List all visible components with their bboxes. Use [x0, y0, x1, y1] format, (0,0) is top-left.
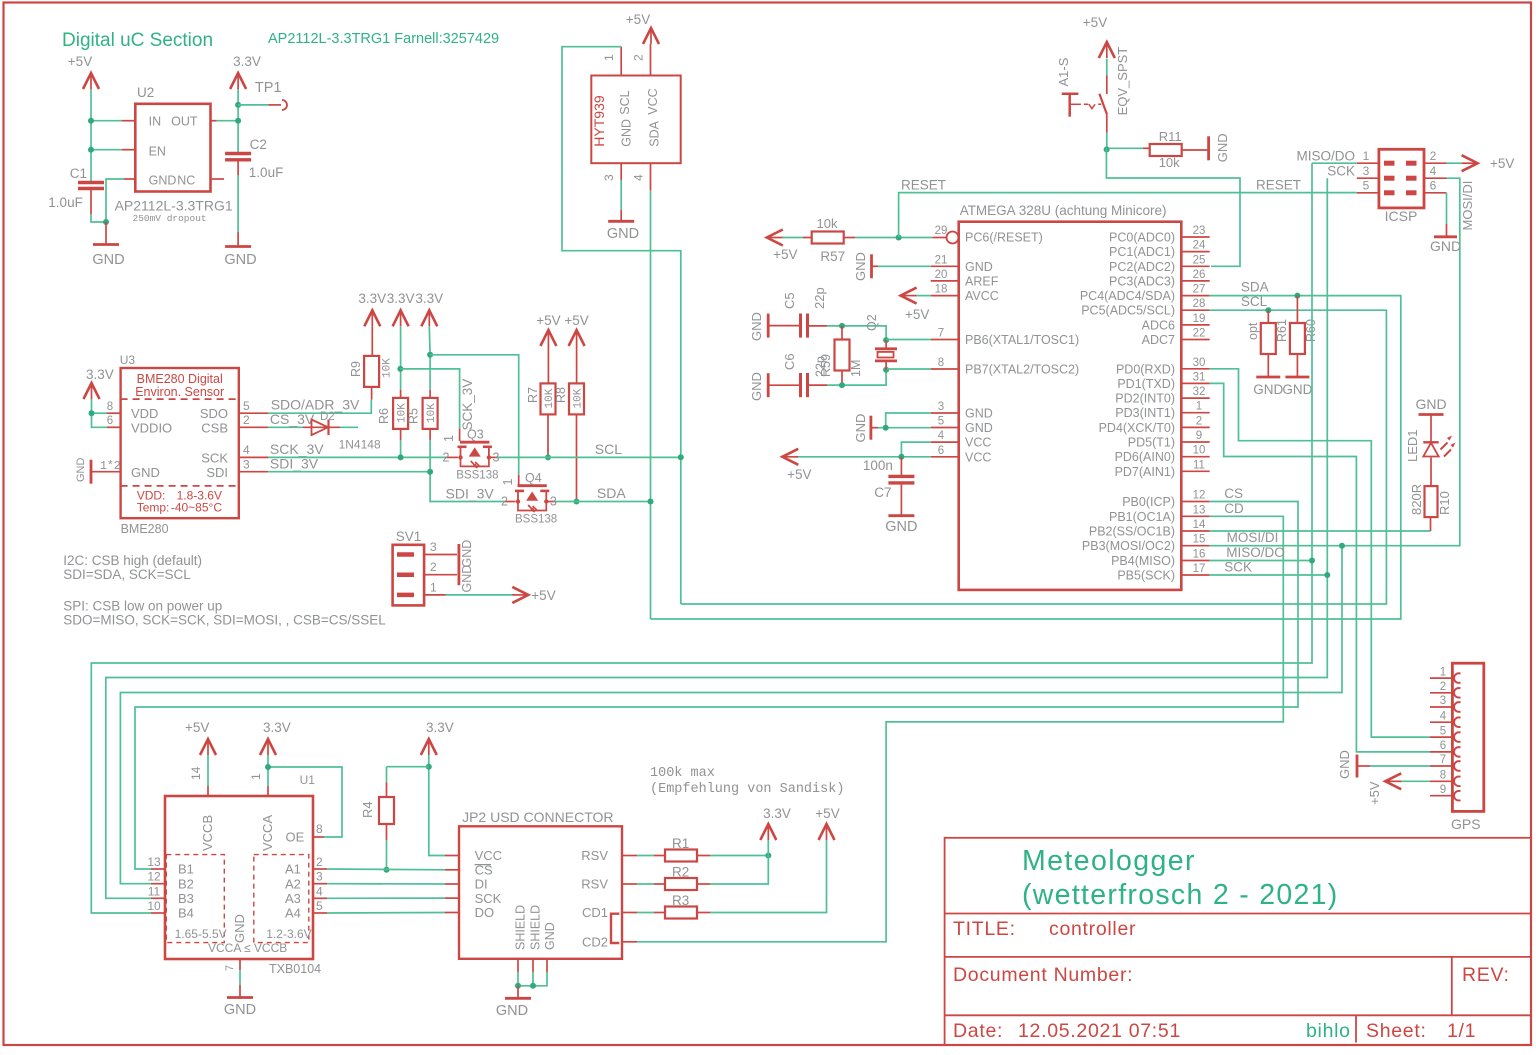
wire R11 to GND	[1181, 149, 1207, 151]
svg-text:Q2: Q2	[865, 314, 879, 331]
svg-text:A1: A1	[285, 862, 301, 877]
ground symbol C7	[888, 514, 914, 517]
pin stub U2 EN	[122, 149, 136, 151]
svg-text:11: 11	[148, 884, 161, 898]
svg-text:1M: 1M	[849, 360, 863, 377]
resistor R9	[371, 326, 373, 356]
wire ICSP pin4 MOSI	[1344, 178, 1460, 546]
svg-text:GND: GND	[460, 540, 474, 568]
resistor R1	[637, 855, 654, 857]
junction R4 CS	[384, 867, 390, 873]
resistor R2	[637, 883, 654, 885]
svg-text:10: 10	[147, 899, 161, 913]
svg-text:MOSI/DI: MOSI/DI	[1460, 181, 1475, 231]
svg-text:14: 14	[189, 766, 203, 780]
junction gate Q3 rail	[397, 366, 403, 372]
junction VCCA OE	[265, 764, 271, 770]
wire 3.3V no2 down	[400, 326, 402, 390]
svg-text:GND: GND	[885, 519, 917, 535]
junction GND pins	[883, 425, 889, 431]
svg-text:R4: R4	[360, 801, 375, 818]
svg-text:8: 8	[316, 822, 323, 836]
wire MISO net pin16 to bus	[1210, 560, 1312, 562]
capacitor C6	[768, 384, 799, 386]
svg-text:9: 9	[1196, 430, 1202, 442]
svg-text:5: 5	[243, 399, 250, 413]
svg-text:8: 8	[938, 357, 944, 369]
pin stub USD DI	[445, 883, 459, 885]
svg-text:PD4(XCK/T0): PD4(XCK/T0)	[1099, 421, 1175, 435]
svg-text:26: 26	[1193, 269, 1206, 281]
testpoint TP1	[238, 104, 268, 106]
pin stub U2 OUT	[211, 120, 217, 122]
pin 2 PD4(XCK/T0) ATMEGA right	[1181, 426, 1209, 428]
junction gate Q4 rail	[427, 352, 433, 358]
wire pin14 to R10	[1210, 530, 1431, 532]
svg-text:NC: NC	[177, 173, 195, 187]
wire U1 pin7 GND	[239, 959, 241, 970]
svg-text:VDDIO: VDDIO	[131, 420, 172, 435]
wire U2 GND pin to GND	[124, 178, 135, 180]
svg-text:2: 2	[243, 413, 250, 427]
svg-text:3: 3	[1363, 164, 1370, 178]
wire A4 to DO	[327, 912, 445, 915]
svg-text:AP2112L-3.3TRG1 Farnell:325742: AP2112L-3.3TRG1 Farnell:3257429	[268, 31, 499, 47]
pin 32 PD2(INT0) ATMEGA right	[1181, 397, 1209, 399]
svg-text:1: 1	[1196, 401, 1202, 413]
wire USD bottom pins to GND	[517, 959, 519, 972]
svg-text:B4: B4	[178, 906, 194, 921]
power 3.3V symbol near U2	[230, 73, 246, 89]
svg-text:6: 6	[1430, 179, 1437, 193]
resistor R61 opt	[1267, 310, 1269, 323]
pin stub ATMEGA pin29 with inversion circle	[932, 237, 946, 239]
svg-text:DI: DI	[475, 877, 488, 892]
svg-text:22: 22	[1193, 328, 1206, 340]
ground symbol under U2	[105, 222, 107, 244]
pin stub ICSP pin3	[1357, 177, 1379, 179]
pin 21 GND ATMEGA left	[931, 265, 959, 267]
svg-text:R11: R11	[1159, 129, 1182, 144]
wire TXD net pin31 to GPS pin6	[1210, 383, 1430, 752]
svg-text:I2C: CSB high (default): I2C: CSB high (default)	[63, 553, 202, 568]
svg-text:VCC: VCC	[646, 88, 660, 114]
svg-text:11: 11	[1193, 459, 1205, 471]
svg-text:Document Number:: Document Number:	[953, 964, 1133, 986]
svg-text:SCK: SCK	[201, 451, 228, 466]
svg-text:+5V: +5V	[185, 720, 209, 735]
svg-text:1.65-5.5V: 1.65-5.5V	[175, 927, 227, 941]
svg-text:GND: GND	[853, 252, 868, 281]
junction R1 3.3V	[765, 853, 771, 859]
svg-text:ADC6: ADC6	[1142, 318, 1175, 332]
dashed section A	[254, 855, 309, 943]
wire R1 to 3.3V	[710, 855, 768, 857]
svg-text:GND: GND	[749, 372, 764, 401]
svg-text:10K: 10K	[382, 358, 394, 378]
svg-text:R6: R6	[377, 408, 391, 424]
svg-text:2: 2	[430, 560, 437, 574]
svg-text:JP2 USD CONNECTOR: JP2 USD CONNECTOR	[462, 809, 613, 825]
power 3.3V symbol R1	[767, 840, 769, 856]
junction SCK	[1324, 572, 1330, 578]
pin 13 PB1(OC1A) ATMEGA right	[1181, 515, 1209, 517]
svg-text:IN: IN	[149, 114, 162, 128]
svg-text:25: 25	[1193, 254, 1206, 266]
pin 15 PB3(MOSI/OC2) ATMEGA right	[1181, 545, 1209, 547]
wire R3 to +5V	[710, 840, 827, 913]
pin 6 VCC ATMEGA left	[931, 456, 959, 458]
power +5V symbol ICSP pin2	[1447, 162, 1462, 164]
IC U2 AP2112L box	[135, 104, 210, 192]
junction SDA R60	[1294, 293, 1300, 299]
svg-text:GPS: GPS	[1451, 816, 1481, 832]
junction +5V EN	[88, 147, 94, 153]
transistor Q3 BSS138	[460, 441, 489, 444]
svg-text:VCCA: VCCA	[260, 815, 275, 851]
wire HYT939 SDA down	[650, 191, 652, 619]
svg-text:SCL: SCL	[1241, 294, 1268, 309]
svg-text:VDD: VDD	[131, 406, 158, 421]
svg-text:GND: GND	[853, 414, 868, 443]
svg-text:12: 12	[147, 870, 161, 884]
pin stub USD CD2	[622, 941, 637, 943]
connector GPS box	[1452, 663, 1483, 811]
power +5V symbol AVCC	[901, 288, 917, 304]
svg-text:SPI: CSB low on power up: SPI: CSB low on power up	[63, 599, 222, 614]
pin 19 ADC6 ATMEGA right	[1181, 324, 1209, 326]
svg-text:GND: GND	[1337, 750, 1352, 779]
svg-text:GND: GND	[749, 312, 764, 341]
svg-text:A1-S: A1-S	[1056, 57, 1071, 86]
svg-text:REV:: REV:	[1462, 964, 1510, 986]
svg-text:7: 7	[1440, 754, 1446, 766]
svg-text:PD3(INT1): PD3(INT1)	[1115, 406, 1175, 420]
resistor R57	[812, 232, 844, 244]
overline CS	[475, 864, 491, 866]
svg-text:2: 2	[501, 495, 508, 509]
pin stub USD RSV	[622, 883, 637, 885]
wire SCL pin28	[681, 310, 1387, 604]
svg-text:10k: 10k	[1159, 155, 1180, 170]
svg-text:GND: GND	[496, 1003, 528, 1019]
wire R4 bottom to CS	[386, 824, 388, 840]
svg-text:29: 29	[935, 225, 948, 237]
svg-text:31: 31	[1193, 371, 1206, 383]
ground symbol SV1 pin3	[457, 544, 460, 565]
svg-text:3: 3	[1440, 695, 1446, 707]
svg-text:GND: GND	[965, 421, 993, 435]
svg-text:3.3V: 3.3V	[358, 291, 386, 306]
svg-text:17: 17	[1193, 563, 1206, 575]
svg-text:Sheet:: Sheet:	[1366, 1020, 1427, 1042]
connector ICSP box	[1379, 149, 1424, 208]
svg-text:100n: 100n	[863, 458, 893, 473]
wire AVCC +5V	[917, 295, 931, 297]
svg-text:6: 6	[938, 445, 944, 457]
pin stub GPS pin4	[1430, 721, 1455, 723]
svg-text:MISO/DO: MISO/DO	[1296, 149, 1355, 164]
IC U1 TXB0104 box	[165, 796, 313, 959]
pin stub BME CSB	[239, 426, 268, 428]
wire SCK net pin17 to bus	[1210, 574, 1328, 576]
svg-text:SDI: SDI	[206, 465, 228, 480]
power +5V symbol SV1 pin1	[446, 594, 514, 596]
svg-text:PD6(AIN0): PD6(AIN0)	[1115, 450, 1175, 464]
svg-text:PC4(ADC4/SDA): PC4(ADC4/SDA)	[1080, 289, 1175, 303]
crystal Q2	[885, 340, 887, 349]
svg-text:opt: opt	[1246, 322, 1260, 340]
svg-text:CD1: CD1	[582, 905, 608, 920]
title block frame	[945, 838, 1531, 1045]
ground symbol pins 3 5	[870, 416, 873, 440]
pin stub GPS pin9	[1430, 795, 1455, 797]
svg-text:CD2: CD2	[582, 935, 608, 950]
svg-text:U2: U2	[137, 85, 154, 100]
ground symbol R60	[1285, 376, 1309, 379]
svg-text:PB4(MISO): PB4(MISO)	[1111, 554, 1175, 568]
svg-text:2: 2	[1430, 149, 1437, 163]
svg-text:PB2(SS/OC1B): PB2(SS/OC1B)	[1089, 525, 1175, 539]
svg-text:VCCA ≤ VCCB: VCCA ≤ VCCB	[208, 941, 287, 955]
pin stub USD VCC	[445, 855, 459, 857]
svg-text:3.3V: 3.3V	[86, 367, 114, 382]
svg-text:TXB0104: TXB0104	[269, 962, 321, 976]
pin stub BME SCK	[239, 456, 268, 458]
svg-text:4: 4	[243, 443, 250, 457]
svg-text:C7: C7	[874, 485, 891, 500]
wire CD net pin13 to CD1 CD2	[637, 516, 1283, 942]
svg-text:+5V: +5V	[564, 313, 588, 328]
wire C2 to GND	[237, 160, 239, 176]
svg-text:RESET: RESET	[1256, 178, 1301, 193]
wire XTAL1 to pin7	[886, 339, 931, 341]
svg-text:PB6(XTAL1/TOSC1): PB6(XTAL1/TOSC1)	[965, 333, 1079, 347]
svg-text:2: 2	[443, 451, 450, 465]
wire MOSI net pin15 to bus	[120, 546, 1342, 884]
svg-text:+5V: +5V	[531, 588, 555, 603]
svg-text:-40~85°C: -40~85°C	[171, 501, 222, 515]
LED LED1	[1430, 458, 1432, 487]
junction RESET node	[896, 235, 902, 241]
svg-text:PD0(RXD): PD0(RXD)	[1116, 362, 1175, 376]
resistor R4	[379, 797, 394, 824]
svg-text:8: 8	[1440, 770, 1446, 782]
svg-text:3.3V: 3.3V	[233, 54, 261, 69]
svg-text:CD: CD	[1224, 501, 1244, 516]
svg-text:GND: GND	[1415, 396, 1446, 412]
pin stub GPS pin7	[1430, 765, 1455, 767]
junction VDD	[89, 410, 95, 416]
power 3.3V symbol U1	[260, 739, 276, 755]
svg-text:ATMEGA 328U (achtung Minicore): ATMEGA 328U (achtung Minicore)	[960, 203, 1167, 218]
svg-text:PB3(MOSI/OC2): PB3(MOSI/OC2)	[1082, 539, 1175, 553]
svg-text:SCK: SCK	[1327, 164, 1355, 179]
svg-text:CS: CS	[1224, 486, 1243, 501]
svg-text:Temp:: Temp:	[137, 501, 170, 515]
svg-text:7: 7	[938, 328, 944, 340]
svg-text:6: 6	[107, 415, 113, 427]
pin 23 PC0(ADC0) ATMEGA right	[1181, 236, 1209, 238]
pin 3 GND ATMEGA left	[931, 412, 959, 414]
svg-text:6: 6	[1440, 740, 1446, 752]
svg-text:GND: GND	[224, 252, 256, 268]
svg-text:A3: A3	[285, 891, 301, 906]
svg-text:30: 30	[1193, 357, 1206, 369]
svg-text:22p: 22p	[814, 356, 828, 377]
svg-text:EQV_SPST: EQV_SPST	[1115, 47, 1130, 116]
pin stub GPS pin8	[1430, 780, 1455, 782]
pin 18 AVCC ATMEGA left	[931, 295, 959, 297]
wire CSB to D2	[268, 426, 303, 428]
svg-text:1.0uF: 1.0uF	[249, 165, 284, 180]
svg-text:U3: U3	[120, 353, 136, 367]
svg-text:U1: U1	[300, 773, 316, 787]
wire C7 to GND	[900, 483, 902, 515]
resistor R3	[637, 912, 654, 914]
pin stub U2 IN	[122, 120, 136, 122]
junction R59 bottom	[839, 382, 845, 388]
IC U3 BME280 box	[121, 368, 239, 518]
junction MOSI	[1339, 543, 1345, 549]
svg-text:R60: R60	[1304, 319, 1318, 342]
svg-text:SHIELD: SHIELD	[529, 905, 543, 950]
junction XTAL1	[883, 337, 889, 343]
svg-text:5: 5	[1363, 179, 1370, 193]
diode D2 1N4148	[303, 426, 340, 428]
svg-text:C1: C1	[70, 166, 87, 181]
junction SCL R61	[1265, 307, 1271, 313]
resistor R7	[547, 346, 549, 383]
svg-text:GND: GND	[1253, 382, 1283, 397]
power +5V symbol GPS pin8	[1400, 780, 1431, 782]
svg-text:13: 13	[147, 855, 161, 869]
ground symbol R11 rotated	[1207, 136, 1210, 160]
svg-text:SCL: SCL	[618, 90, 632, 114]
wire 3.3V to VDD VDDIO	[92, 399, 108, 427]
ground symbol C6	[767, 373, 770, 397]
junction 3.3V R4	[426, 764, 432, 770]
svg-text:PC5(ADC5/SCL): PC5(ADC5/SCL)	[1081, 304, 1175, 318]
svg-text:19: 19	[1193, 313, 1206, 325]
svg-text:SCK: SCK	[1224, 560, 1252, 575]
svg-text:3: 3	[602, 174, 616, 181]
svg-text:+5V: +5V	[773, 247, 797, 262]
svg-text:GND: GND	[460, 565, 474, 593]
pin stub HYT939 pin2 VCC	[650, 44, 652, 76]
capacitor C7	[900, 457, 902, 475]
svg-text:4: 4	[1440, 710, 1447, 722]
svg-text:RESET: RESET	[901, 178, 946, 193]
svg-text:VCCB: VCCB	[200, 815, 215, 851]
resistor R8	[576, 346, 578, 383]
capacitor C5	[768, 325, 799, 327]
svg-text:PC0(ADC0): PC0(ADC0)	[1109, 231, 1175, 245]
junction R7 SCL	[545, 454, 551, 460]
svg-text:13: 13	[1193, 504, 1206, 516]
svg-text:Digital uC Section: Digital uC Section	[62, 30, 213, 51]
wire pin3 pin5 GND	[878, 427, 931, 429]
wire SDA from Q4 to HYT junction	[556, 501, 651, 503]
wire U2 OUT to 3.3V rail	[217, 120, 239, 122]
power +5V symbol U1	[200, 739, 216, 755]
svg-text:PB0(ICP): PB0(ICP)	[1122, 495, 1175, 509]
pin stub GPS pin1	[1430, 677, 1455, 679]
svg-text:HYT939: HYT939	[591, 95, 607, 147]
svg-text:+5V: +5V	[1367, 781, 1382, 805]
svg-text:AP2112L-3.3TRG1: AP2112L-3.3TRG1	[115, 198, 233, 214]
svg-text:2: 2	[632, 54, 646, 61]
svg-text:1: 1	[1363, 149, 1370, 163]
junction TP1 node	[235, 102, 241, 108]
junction XTAL2	[883, 367, 889, 373]
pin 12 PB0(ICP) ATMEGA right	[1181, 501, 1209, 503]
wire +5V to R57	[783, 237, 803, 239]
pin stub USD CS	[445, 869, 459, 871]
wire SDO to R9	[268, 400, 371, 414]
svg-text:20: 20	[935, 269, 948, 281]
svg-text:3: 3	[316, 870, 323, 884]
pin 25 PC2(ADC2) ATMEGA right	[1181, 265, 1209, 267]
junction +5V IN	[88, 118, 94, 124]
wire switch to PC2 pin25	[1106, 148, 1240, 266]
wire to Q4 gate	[430, 355, 519, 475]
svg-text:820R: 820R	[1409, 484, 1424, 515]
svg-text:R1: R1	[672, 836, 689, 851]
svg-text:LED1: LED1	[1405, 429, 1420, 462]
svg-text:ICSP: ICSP	[1385, 208, 1418, 224]
svg-text:GND: GND	[75, 458, 87, 483]
power +5V symbol R3	[819, 824, 835, 840]
svg-text:(wetterfrosch 2 - 2021): (wetterfrosch 2 - 2021)	[1022, 879, 1339, 911]
pin stub BME SDI	[239, 471, 268, 473]
ground symbol SV1 pin2	[457, 564, 460, 585]
svg-text:SDA: SDA	[1241, 280, 1269, 295]
svg-text:C5: C5	[782, 292, 797, 309]
pin stub HYT939 pin3 GND	[620, 163, 622, 180]
pin 8 PB7(XTAL2/TOSC2) ATMEGA left	[931, 368, 959, 370]
svg-text:GND: GND	[149, 173, 177, 187]
pin stub ICSP pin4	[1424, 177, 1447, 179]
pin 4 VCC ATMEGA left	[931, 441, 959, 443]
svg-text:+5V: +5V	[815, 806, 839, 821]
connector SV1 box	[393, 545, 425, 606]
svg-text:SDA: SDA	[597, 485, 626, 501]
svg-text:+5V: +5V	[536, 313, 560, 328]
pin 10 PD6(AIN0) ATMEGA right	[1181, 456, 1209, 458]
pin stub BME VDD	[107, 412, 121, 414]
svg-text:OE: OE	[286, 830, 305, 845]
ground symbol USD	[517, 986, 519, 998]
svg-text:MISO/DO: MISO/DO	[1226, 545, 1285, 560]
svg-text:BME280: BME280	[121, 522, 169, 536]
svg-text:PB1(OC1A): PB1(OC1A)	[1109, 510, 1175, 524]
wire RESET to ICSP pin5	[899, 193, 1357, 238]
pin stub ICSP pin5	[1357, 192, 1379, 194]
ground symbol U1	[227, 996, 253, 999]
svg-text:5: 5	[938, 416, 944, 428]
pin stub HYT939 pin1	[620, 47, 622, 76]
svg-text:10k: 10k	[817, 216, 838, 231]
svg-text:PC1(ADC1): PC1(ADC1)	[1109, 245, 1175, 259]
junction R59 top	[839, 323, 845, 329]
svg-text:12: 12	[1193, 490, 1206, 502]
resistor R10	[1430, 517, 1432, 531]
wire R2 to 3.3V	[710, 856, 768, 885]
pin stub SV1 pin3	[424, 554, 457, 556]
junction shield2	[530, 983, 536, 989]
pin 28 PC5(ADC5/SCL) ATMEGA right	[1181, 309, 1209, 311]
